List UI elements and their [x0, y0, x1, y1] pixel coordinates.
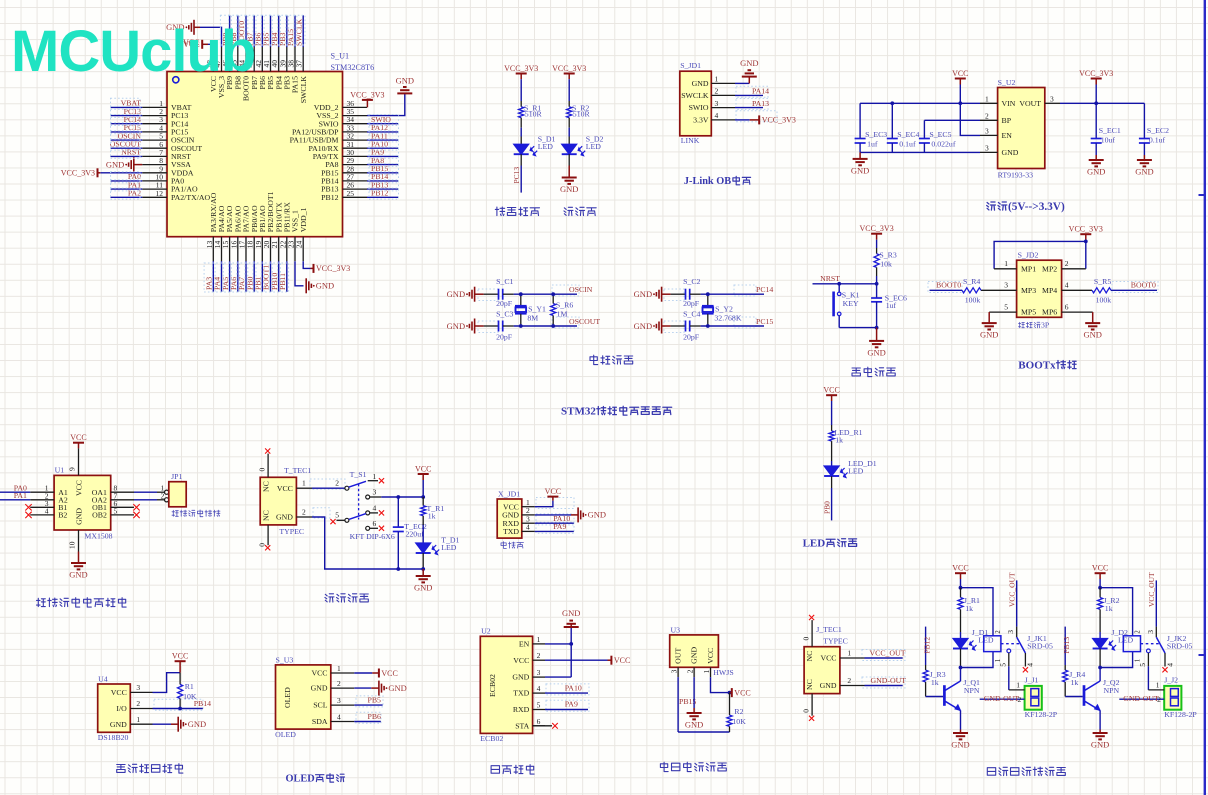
- power VCC motor: [78, 443, 80, 449]
- power VCC: [959, 79, 961, 85]
- svg-text:2: 2: [537, 651, 541, 660]
- svg-text:TYPEC: TYPEC: [279, 527, 304, 536]
- title 温度采集模块: [117, 765, 125, 773]
- LED LED_D1: [824, 466, 839, 476]
- resistor J_R1 1k: [960, 588, 962, 598]
- svg-text:1: 1: [136, 715, 140, 724]
- U1 bottom pin 24 VDD_1: [302, 237, 304, 262]
- svg-text:VCC: VCC: [70, 433, 86, 442]
- svg-text:R2: R2: [734, 707, 743, 716]
- svg-text:BOOT0: BOOT0: [936, 281, 961, 290]
- svg-text:1: 1: [702, 669, 711, 673]
- relay coil J_JK2: [1123, 636, 1140, 652]
- T_TEC1 shield pin top: [267, 454, 269, 478]
- svg-text:I/O: I/O: [116, 704, 127, 713]
- svg-text:BOOTx: BOOTx: [1018, 360, 1056, 372]
- svg-text:S_EC1: S_EC1: [1099, 126, 1121, 135]
- S_JD2 pin2: [1062, 268, 1086, 270]
- power VCC_3V3: [1095, 79, 1097, 85]
- svg-text:510R: 510R: [525, 110, 543, 119]
- svg-text:1uf: 1uf: [867, 140, 878, 149]
- svg-text:GND: GND: [447, 289, 465, 299]
- svg-text:B2: B2: [58, 511, 67, 520]
- svg-text:SWCLK: SWCLK: [299, 76, 308, 104]
- svg-text:1: 1: [1135, 659, 1142, 662]
- svg-text:1: 1: [847, 648, 851, 657]
- net label PB12: [925, 627, 927, 665]
- ground: [1095, 155, 1097, 160]
- svg-text:OSCOUT: OSCOUT: [569, 317, 600, 326]
- svg-text:SDA: SDA: [312, 717, 328, 726]
- svg-text:GND: GND: [106, 159, 124, 169]
- svg-text:3.3V: 3.3V: [693, 116, 709, 125]
- svg-text:VCC_3V3: VCC_3V3: [504, 64, 538, 73]
- ground typec: [422, 569, 424, 576]
- svg-text:100k: 100k: [1096, 295, 1112, 304]
- svg-text:4: 4: [715, 111, 719, 120]
- power VCC_3V3 at U1 pin 9 VDDA: [100, 172, 142, 174]
- T_TEC1 pin2 GND wire: [296, 516, 312, 518]
- J_TEC1 shield top: [811, 620, 813, 647]
- svg-text:(5V-->3.3V): (5V-->3.3V): [1008, 201, 1065, 213]
- svg-text:GND: GND: [1135, 167, 1153, 177]
- svg-text:GND: GND: [560, 184, 578, 194]
- svg-text:STM32: STM32: [561, 406, 596, 418]
- no-connect mark: [809, 615, 814, 620]
- no-connect mark: [809, 716, 814, 721]
- svg-text:SRD-05: SRD-05: [1027, 641, 1053, 650]
- svg-text:S_Y1: S_Y1: [528, 305, 546, 314]
- svg-text:NC: NC: [262, 481, 271, 492]
- svg-text:X_JD1: X_JD1: [498, 489, 520, 498]
- svg-text:VOUT: VOUT: [1019, 99, 1041, 108]
- U1 bottom pin 16 PA6/AO: [237, 237, 239, 262]
- power VCC led: [831, 395, 833, 401]
- svg-text:J_J1: J_J1: [1025, 675, 1039, 684]
- U1 top pin 44 BOOT0: [245, 47, 247, 72]
- svg-text:LINK: LINK: [681, 136, 700, 145]
- wire: [520, 118, 522, 128]
- svg-text:GND: GND: [851, 165, 869, 175]
- svg-text:10K: 10K: [732, 717, 746, 726]
- net PB5: [354, 704, 382, 706]
- net highlight masks: [111, 98, 141, 109]
- svg-text:PB12: PB12: [321, 193, 338, 202]
- svg-text:25: 25: [347, 189, 355, 198]
- power VCC download: [535, 501, 553, 507]
- svg-text:5: 5: [999, 663, 1008, 667]
- junction: [569, 642, 573, 646]
- svg-text:GND: GND: [512, 673, 529, 682]
- svg-text:MP5: MP5: [1021, 308, 1036, 317]
- wire OA1 to JP1: [111, 491, 134, 493]
- svg-text:4: 4: [45, 506, 49, 515]
- wire: [701, 325, 764, 327]
- U1 bottom pin 22 PB11/RX: [286, 237, 288, 262]
- svg-text:GND: GND: [447, 321, 465, 331]
- svg-text:GND: GND: [1002, 148, 1019, 157]
- connector JP1: [169, 482, 186, 507]
- svg-text:20pF: 20pF: [496, 299, 513, 308]
- svg-text:2: 2: [715, 87, 719, 96]
- svg-text:DS18B20: DS18B20: [98, 733, 129, 742]
- T_TEC1 pin1 VCC wire: [296, 487, 312, 489]
- svg-text:S_Y2: S_Y2: [715, 305, 733, 314]
- U1 top pin 47 VSS_3: [221, 47, 223, 72]
- svg-text:GND: GND: [414, 583, 432, 593]
- resistor T_R1 1k: [422, 497, 424, 506]
- power VCC_3V3 for S_R2: [568, 74, 570, 80]
- svg-text:4: 4: [1065, 281, 1069, 290]
- U1 left pin 6 OSCOUT: [142, 147, 167, 149]
- svg-text:0: 0: [802, 637, 811, 641]
- svg-text:VCC_3V3: VCC_3V3: [1069, 225, 1103, 234]
- svg-text:20pF: 20pF: [683, 299, 700, 308]
- T_TEC1 shield pin bottom: [267, 525, 269, 545]
- title 直流电机驱动模块: [37, 598, 46, 606]
- svg-text:PB0: PB0: [822, 501, 831, 514]
- svg-text:U4: U4: [98, 674, 108, 683]
- sensor U4 DS18B20: [98, 684, 131, 732]
- resistor S_R4 100k: [930, 289, 963, 291]
- svg-text:GND: GND: [980, 330, 998, 340]
- svg-text:PC15: PC15: [756, 317, 773, 326]
- net PB6: [354, 721, 381, 723]
- svg-text:VIN: VIN: [1002, 99, 1016, 108]
- LED S_D2: [562, 144, 577, 154]
- U1 left pin 11 PA1/AO: [142, 188, 167, 190]
- svg-text:NRST: NRST: [121, 148, 141, 157]
- ground MP6: [1092, 312, 1094, 323]
- svg-text:NPN: NPN: [964, 686, 980, 695]
- svg-text:GND-OUT: GND-OUT: [871, 676, 907, 685]
- svg-text:20pF: 20pF: [683, 332, 700, 341]
- svg-text:GND: GND: [388, 683, 406, 693]
- connector S_JD1 J-Link: [680, 71, 712, 136]
- no-connect mark: [25, 512, 31, 518]
- svg-text:MX1508: MX1508: [84, 532, 112, 541]
- svg-text:PA13: PA13: [752, 99, 769, 108]
- svg-text:SRD-05: SRD-05: [1167, 641, 1193, 650]
- svg-text:6: 6: [537, 717, 541, 726]
- ground at U1 pin 47 (top): [200, 27, 222, 47]
- svg-text:20pF: 20pF: [496, 332, 513, 341]
- svg-text:3: 3: [136, 683, 140, 692]
- U1 left pin 3 PC14: [142, 123, 167, 125]
- svg-text:R1: R1: [185, 682, 194, 691]
- svg-text:VCC: VCC: [820, 654, 836, 663]
- resistor J_R4 1k: [1064, 665, 1066, 670]
- power VCC_3V3 at S_JD1 pin4: [735, 119, 750, 121]
- svg-text:4: 4: [337, 712, 341, 721]
- svg-text:VCC: VCC: [614, 656, 630, 665]
- svg-text:VCC: VCC: [1092, 564, 1108, 573]
- ground at U1 pin 8 VSSA: [133, 157, 135, 172]
- svg-text:S_R4: S_R4: [963, 277, 980, 286]
- ground download: [535, 514, 571, 516]
- wire OUT/PB15: [677, 677, 679, 732]
- wire: [514, 293, 577, 295]
- U1 left pin 10 PA0: [142, 180, 167, 182]
- junction: [959, 586, 963, 590]
- svg-text:GND-OUT: GND-OUT: [1123, 694, 1159, 703]
- ground at S_JD1 pin1: [735, 82, 749, 84]
- svg-text:6: 6: [1065, 303, 1069, 312]
- svg-text:PB14: PB14: [194, 699, 211, 708]
- svg-text:OSCIN: OSCIN: [569, 285, 593, 294]
- U1 left pin 7 NRST: [142, 155, 167, 157]
- svg-text:GND: GND: [311, 684, 328, 693]
- net PA13: [735, 107, 763, 109]
- U1 right pin 35 VSS_2: [343, 115, 368, 117]
- junction: [958, 101, 962, 105]
- svg-text:NC: NC: [805, 679, 814, 690]
- junction: [178, 707, 182, 711]
- U1 top pin 39 PB3: [286, 47, 288, 72]
- no-connect mark: [379, 510, 384, 515]
- svg-text:S_EC5: S_EC5: [929, 130, 951, 139]
- svg-text:1: 1: [537, 635, 541, 644]
- svg-text:2: 2: [1065, 259, 1069, 268]
- power VCC at U1 pin 48: [208, 44, 213, 47]
- svg-text:PA9: PA9: [553, 522, 566, 531]
- LED T_D1: [416, 543, 431, 553]
- U1 bottom pin 15 PA5/AO: [229, 237, 231, 262]
- svg-text:4: 4: [537, 684, 541, 693]
- LED J_D2: [1093, 639, 1108, 649]
- svg-text:PB6: PB6: [368, 712, 382, 721]
- relay contact 4: [1024, 653, 1026, 667]
- wire to coil: [1100, 588, 1133, 636]
- resistor S_R3 10k: [874, 254, 879, 268]
- ground: [568, 166, 570, 178]
- U1 bottom pin 23 VSS_1: [294, 237, 296, 262]
- resistor S_R1 510R: [519, 107, 524, 118]
- ground relay: [960, 711, 962, 730]
- wire VOUT: [1060, 102, 1144, 104]
- svg-text:MP6: MP6: [1042, 308, 1057, 317]
- module U2 ECB02: [480, 636, 532, 733]
- svg-text:VDD_1: VDD_1: [299, 207, 308, 232]
- svg-text:GND: GND: [396, 75, 414, 85]
- svg-text:GND: GND: [69, 570, 87, 580]
- svg-text:BP: BP: [1002, 116, 1012, 125]
- junction: [421, 567, 425, 571]
- svg-text:12: 12: [156, 189, 164, 198]
- svg-text:GND: GND: [820, 681, 837, 690]
- svg-text:PC13: PC13: [512, 167, 521, 184]
- svg-text:1k: 1k: [835, 436, 843, 445]
- S_JD2 pin6: [1062, 311, 1093, 313]
- svg-text:OLED: OLED: [283, 687, 292, 708]
- title 蓝牙模块: [491, 766, 499, 774]
- svg-text:BOOT0: BOOT0: [1131, 281, 1156, 290]
- svg-text:2: 2: [1018, 695, 1022, 704]
- svg-text:MP1: MP1: [1021, 264, 1036, 273]
- U1 top pin 48 VCC: [212, 47, 214, 72]
- svg-text:VCC_OUT: VCC_OUT: [1007, 572, 1016, 607]
- svg-text:LED: LED: [848, 467, 864, 476]
- svg-text:S_EC3: S_EC3: [865, 130, 887, 139]
- svg-text:J_TEC1: J_TEC1: [816, 625, 842, 634]
- svg-text:6: 6: [373, 519, 377, 528]
- wire coil bottom: [1100, 652, 1133, 668]
- svg-text:0: 0: [258, 543, 267, 547]
- wire to J_J2 pin1: [1148, 689, 1164, 691]
- svg-text:VCC: VCC: [823, 386, 839, 395]
- svg-text:S_R6: S_R6: [556, 301, 573, 310]
- svg-text:1: 1: [373, 472, 377, 481]
- driver U1 MX1508: [54, 475, 111, 530]
- svg-text:VCC: VCC: [74, 480, 83, 496]
- svg-text:HWJS: HWJS: [713, 668, 733, 677]
- relay contact 5: [1007, 649, 1011, 653]
- svg-text:2: 2: [136, 699, 140, 708]
- no-connect mark: [25, 504, 31, 510]
- svg-text:JP1: JP1: [171, 472, 182, 481]
- svg-text:MP3: MP3: [1021, 286, 1036, 295]
- capacitor S_C3 20pF: [498, 321, 500, 332]
- wire: [568, 118, 570, 128]
- junction: [551, 292, 555, 296]
- svg-text:S_JD1: S_JD1: [680, 61, 701, 70]
- no-connect mark: [265, 448, 270, 453]
- svg-text:2: 2: [686, 669, 695, 673]
- svg-text:GND: GND: [188, 719, 206, 729]
- svg-text:J-Link OB: J-Link OB: [684, 176, 731, 187]
- ground: [859, 152, 861, 159]
- power VCC_3V3 reset: [876, 234, 878, 240]
- svg-text:1: 1: [995, 659, 1002, 662]
- U1 left pin 4 PC15: [142, 131, 167, 133]
- junction: [551, 324, 555, 328]
- capacitor S_EC4 0.1uf: [891, 103, 893, 138]
- power VCC relay J_Q1: [960, 573, 962, 579]
- no-connect mark: [379, 526, 384, 531]
- svg-text:8M: 8M: [527, 313, 538, 322]
- U1 top pin 38 PA15: [294, 47, 296, 72]
- net PA10: [535, 522, 574, 524]
- LED S_D1: [514, 144, 529, 154]
- svg-text:10uf: 10uf: [1101, 135, 1116, 144]
- svg-text:9: 9: [68, 467, 77, 471]
- svg-text:VCC_3V3: VCC_3V3: [316, 264, 350, 273]
- svg-text:VCC_3V3: VCC_3V3: [61, 169, 95, 178]
- svg-text:OLED: OLED: [275, 730, 296, 739]
- ground left of S_C3: [474, 319, 476, 334]
- svg-text:ECB02: ECB02: [488, 674, 497, 697]
- svg-text:MCUclub: MCUclub: [11, 19, 255, 84]
- wire VIN rail: [860, 102, 980, 104]
- svg-text:LED: LED: [978, 635, 994, 644]
- svg-text:U3: U3: [671, 625, 681, 634]
- svg-text:VCC: VCC: [111, 688, 127, 697]
- U1 left pin 12 PA2/TX/AO: [142, 196, 167, 198]
- svg-text:SWCLK: SWCLK: [681, 91, 709, 100]
- wire: [514, 325, 577, 327]
- svg-text:1: 1: [337, 664, 341, 673]
- U1 right pin 33 PA12/USB/DP: [343, 131, 368, 133]
- svg-text:PB5: PB5: [368, 696, 382, 705]
- svg-text:LED: LED: [586, 142, 602, 151]
- svg-text:RXD: RXD: [513, 705, 530, 714]
- wire PB0: [831, 476, 833, 488]
- wire: [701, 293, 764, 295]
- svg-text:VCC: VCC: [311, 669, 327, 678]
- svg-text:OUT: OUT: [674, 648, 683, 664]
- svg-text:ECB02: ECB02: [480, 734, 503, 743]
- svg-text:3: 3: [337, 696, 341, 705]
- net PA14: [735, 94, 763, 96]
- svg-text:S_U2: S_U2: [998, 78, 1016, 87]
- wire BP: [924, 119, 980, 121]
- svg-text:4: 4: [526, 523, 530, 532]
- junction: [1098, 666, 1102, 670]
- svg-text:VCC: VCC: [172, 652, 188, 661]
- title 红外接收电路: [660, 762, 668, 771]
- U1 right pin 26 PB13: [343, 188, 368, 190]
- svg-text:SCL: SCL: [313, 701, 328, 710]
- no-connect mark: [133, 512, 139, 518]
- power VCC typec: [422, 474, 424, 480]
- U1 top pin 43 PB7: [253, 47, 255, 72]
- junction: [421, 495, 425, 499]
- junction: [728, 691, 732, 695]
- wire to coil: [961, 588, 994, 636]
- net label PB13: [1064, 627, 1066, 665]
- svg-text:0: 0: [258, 468, 267, 472]
- svg-text:3: 3: [670, 669, 679, 673]
- U1 right pin 32 PA11/USB/DM: [343, 139, 368, 141]
- svg-text:3: 3: [537, 668, 541, 677]
- op-amp U1 body: MCU S_U1 STM32C8T6: [167, 72, 343, 237]
- U1 left pin 9 VDDA: [142, 172, 167, 174]
- U1 left pin 5 OSCIN: [142, 139, 167, 141]
- svg-text:OLED: OLED: [286, 774, 315, 785]
- junction: [1098, 586, 1102, 590]
- power VCC_3V3 at U1 pin 24 VDD_1: [303, 261, 310, 268]
- ground left of S_C1: [474, 287, 476, 302]
- title 电源灯: [564, 207, 573, 215]
- svg-text:NC: NC: [262, 510, 271, 521]
- svg-text:3: 3: [985, 144, 989, 153]
- no-connect STA: [533, 725, 552, 727]
- svg-text:STA: STA: [515, 721, 529, 730]
- ground at U1 pin 35 VSS_2 via wire: [367, 94, 405, 116]
- svg-text:1k: 1k: [1105, 604, 1113, 613]
- svg-text:VCC: VCC: [706, 648, 715, 664]
- svg-text:KFT DIP-6X6: KFT DIP-6X6: [350, 532, 395, 541]
- receiver U3 HWJS: [670, 635, 719, 667]
- junction: [519, 324, 523, 328]
- junction: [1084, 240, 1088, 244]
- capacitor S_EC2 0.1uf: [1143, 103, 1145, 138]
- junction: [706, 292, 710, 296]
- pushbutton S_K1 KEY: [838, 284, 840, 292]
- svg-text:GND: GND: [1087, 167, 1105, 177]
- display S_U3 OLED: [276, 665, 331, 729]
- svg-text:KF128-2P: KF128-2P: [1025, 710, 1058, 719]
- svg-text:5: 5: [537, 701, 541, 710]
- svg-text:J_J2: J_J2: [1164, 675, 1178, 684]
- LED J_D1: [953, 639, 968, 649]
- svg-text:VCC: VCC: [952, 69, 968, 78]
- svg-text:37: 37: [295, 60, 304, 68]
- svg-text:4: 4: [1165, 663, 1174, 667]
- svg-text:1: 1: [1004, 259, 1008, 268]
- svg-text:RT9193-33: RT9193-33: [998, 171, 1034, 180]
- wire GND rail: [860, 151, 980, 153]
